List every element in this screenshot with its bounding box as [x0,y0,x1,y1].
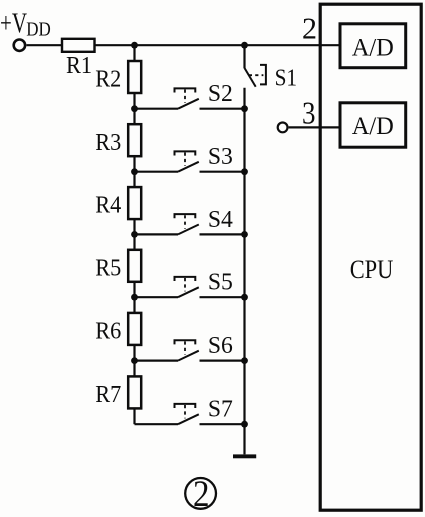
resistor R3 [128,124,141,156]
svg-text:R4: R4 [95,193,121,219]
svg-text:+V: +V [0,8,27,39]
bus wire below S1 [243,88,245,455]
svg-text:3: 3 [302,96,316,131]
wire S5 left segment [135,296,179,298]
wire S7 right segment [200,423,245,425]
junction node ladder row S3 [131,168,138,175]
A/D converter box U2 [340,103,406,147]
wire S4 right segment [200,233,245,235]
wire VDD terminal to R1 [27,44,63,46]
node A (top of ladder) [131,42,138,49]
switch S7 actuator dashed link [184,405,186,418]
resistor R5 [128,250,141,282]
S1 actuator bar [260,65,266,85]
switch S4 blade [178,225,199,235]
wire ladder segment below R2 [133,93,135,109]
svg-text:S3: S3 [208,144,233,170]
wire S3 right segment [200,171,245,173]
wire S4 left segment [135,233,179,235]
junction node ladder row S4 [131,231,138,238]
junction node bus row S2 [241,105,248,112]
junction node ladder row S5 [131,294,138,301]
switch S6 actuator dashed link [184,341,186,354]
wire ladder segment above R5 [133,234,135,249]
junction node ladder row S6 [131,357,138,364]
switch S3 actuator dashed link [184,153,186,166]
svg-text:2: 2 [302,11,317,46]
ground [233,454,256,458]
svg-text:R1: R1 [66,53,92,79]
wire node A to node B [135,44,245,46]
wire ladder segment above R6 [133,297,135,313]
wire ladder segment below R6 [133,345,135,361]
svg-text:A/D: A/D [352,34,394,61]
switch S5 actuator dashed link [184,278,186,291]
junction node bus row S3 [241,168,248,175]
wire ladder segment above R4 [133,172,135,187]
switch S4 actuator bar [175,214,196,218]
wire S6 left segment [135,360,179,362]
label +VDD [0,8,51,40]
wire S3 left segment [135,171,179,173]
switch S5 actuator bar [175,277,196,281]
switch S2 blade [178,99,199,109]
wire S1 top stub [243,45,245,68]
wire ladder segment below R4 [133,219,135,234]
svg-text:S4: S4 [208,207,233,233]
switch S2 actuator dashed link [184,90,186,103]
S1 actuator dashed link [249,74,264,76]
junction node ladder row S2 [131,105,138,112]
svg-text:S6: S6 [208,333,233,359]
wire S6 right segment [200,360,245,362]
figure number circle 2 [185,478,216,509]
junction node bus row S5 [241,294,248,301]
switch S6 actuator bar [175,340,196,344]
wire S2 right segment [200,108,245,110]
junction node bus row S6 [241,357,248,364]
pin 3 terminal circle [278,123,288,133]
wire ladder segment above R2 [133,45,135,61]
svg-text:R7: R7 [95,382,121,408]
CPU box [320,4,421,510]
switch S5 blade [178,287,199,297]
svg-text:R5: R5 [95,255,121,281]
wire S7 left segment [135,423,179,425]
switch S2 actuator bar [175,88,196,92]
node B (top of bus) [241,42,248,49]
wire S5 right segment [200,296,245,298]
switch S3 actuator bar [175,151,196,155]
wire pin3 terminal to A/D input [289,126,340,128]
svg-text:CPU: CPU [350,255,394,284]
terminal +VDD [14,40,25,51]
wire S2 left segment [135,108,179,110]
switch S3 blade [178,162,199,172]
resistor R7 [128,376,141,408]
svg-text:S5: S5 [208,270,233,296]
wire ladder segment below R5 [133,282,135,297]
resistor R6 [128,313,141,345]
resistor R1 [62,39,95,52]
svg-text:R2: R2 [95,67,121,93]
switch S6 blade [178,351,199,361]
switch S7 actuator bar [175,404,196,408]
svg-text:R6: R6 [95,319,121,345]
switch S1 [245,45,266,87]
svg-text:S7: S7 [208,397,233,423]
wire R1 to node A [95,44,135,46]
wire node B to A/D input pin 2 [245,44,341,46]
svg-text:S1: S1 [275,66,298,92]
svg-text:S2: S2 [208,81,233,107]
wire ladder segment above R7 [133,361,135,377]
resistor R2 [128,61,141,93]
A/D converter box U1 [340,24,406,68]
S1 blade [245,68,256,87]
svg-text:2: 2 [193,474,210,515]
wire ladder segment below R7 [133,408,135,424]
switch S4 actuator dashed link [184,215,186,228]
junction node bus row S4 [241,231,248,238]
wire ladder segment above R3 [133,109,135,125]
svg-text:DD: DD [26,19,51,41]
svg-text:R3: R3 [95,130,121,156]
junction node bus row S7 [241,421,248,428]
svg-text:A/D: A/D [352,113,394,140]
resistor R4 [128,187,141,219]
switch S7 blade [178,414,199,424]
wire ladder segment below R3 [133,156,135,172]
